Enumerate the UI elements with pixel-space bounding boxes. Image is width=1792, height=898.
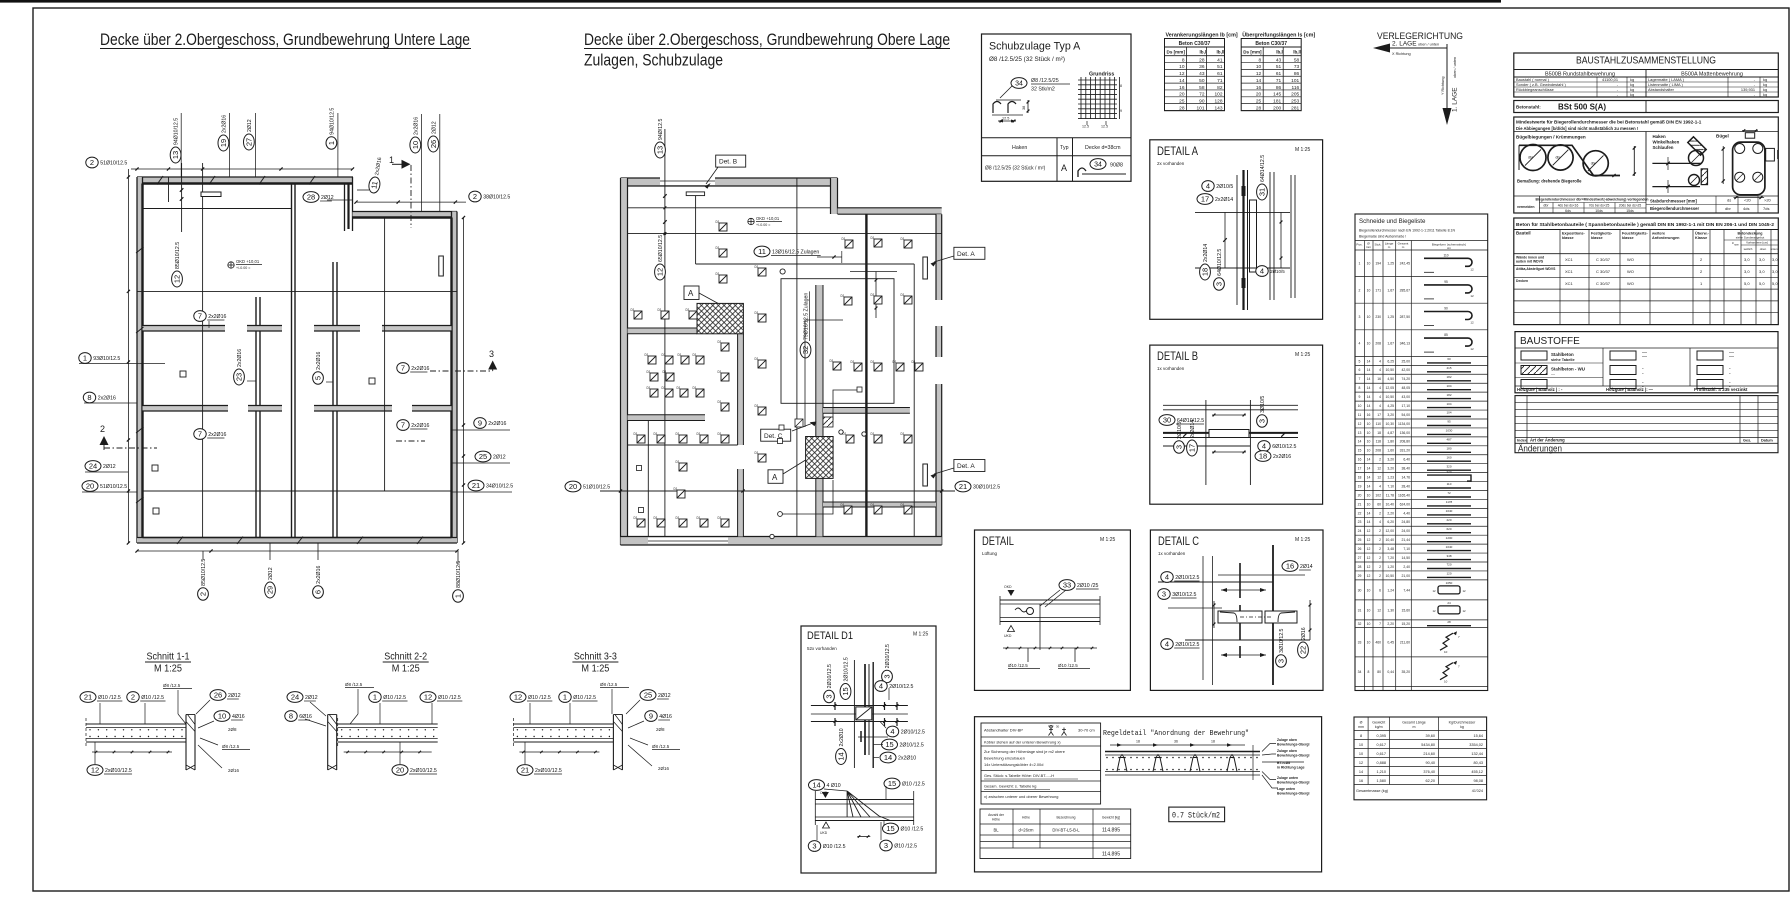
center plan heavy black interior wall bbox=[865, 214, 867, 536]
svg-text:kg: kg bbox=[1460, 725, 1464, 729]
svg-text:klasse: klasse bbox=[1591, 236, 1603, 240]
svg-text:15,20: 15,20 bbox=[1402, 622, 1411, 626]
zulagen inner vertical dim bbox=[875, 272, 877, 319]
svg-text:1178: 1178 bbox=[1446, 500, 1453, 504]
svg-text:1,20: 1,20 bbox=[1387, 565, 1394, 569]
svg-text:Gesam. Gewicht: s. Tabelle k: Gesam. Gewicht: s. Tabelle kg bbox=[984, 784, 1036, 789]
biegerollen circles bbox=[1520, 145, 1546, 171]
svg-text:21,44: 21,44 bbox=[1402, 538, 1411, 542]
svg-text:13: 13 bbox=[656, 146, 665, 154]
svg-text:1,580: 1,580 bbox=[1376, 779, 1386, 783]
svg-text:DETAIL C: DETAIL C bbox=[1158, 534, 1199, 548]
svg-text:2x2Ø16: 2x2Ø16 bbox=[221, 115, 227, 133]
Schneide und Biegeliste table bbox=[1355, 214, 1488, 691]
svg-text:Zulage oben: Zulage oben bbox=[1277, 738, 1297, 742]
verlegerichtung 1.lage arrow bbox=[1446, 44, 1448, 108]
svg-text:cm: cm bbox=[1447, 246, 1452, 250]
svg-text:Verankerungslängen lb [cm]: Verankerungslängen lb [cm] bbox=[1166, 33, 1238, 39]
pos label 11 Zulagen bbox=[754, 246, 821, 257]
svg-text:25: 25 bbox=[644, 691, 652, 700]
svg-text:DETAIL B: DETAIL B bbox=[1157, 349, 1198, 363]
svg-text:9: 9 bbox=[1359, 395, 1361, 399]
svg-text:Stabdurchmesser [mm]: Stabdurchmesser [mm] bbox=[1650, 199, 1697, 204]
anchor table Übergreifungsl bbox=[1241, 32, 1315, 112]
svg-text:31: 31 bbox=[1358, 608, 1362, 612]
svg-text:13: 13 bbox=[171, 151, 180, 159]
center plan interior gray walls bbox=[816, 285, 823, 537]
svg-text:2x2Ø14: 2x2Ø14 bbox=[1203, 244, 1209, 262]
svg-text:Zur Sicherung der Höhenlage si: Zur Sicherung der Höhenlage sind je m2 o… bbox=[984, 749, 1065, 754]
tiny squares center plan bbox=[637, 466, 642, 471]
svg-text:104: 104 bbox=[1446, 411, 1451, 415]
svg-text:4: 4 bbox=[1262, 442, 1266, 451]
slab band 1-1 bbox=[86, 723, 186, 725]
svg-text:BL: BL bbox=[993, 828, 999, 833]
svg-text:Änderungen: Änderungen bbox=[1518, 443, 1562, 454]
svg-text:54,00: 54,00 bbox=[1402, 413, 1411, 417]
detail D1 upper pills bbox=[824, 664, 835, 703]
svg-text:4: 4 bbox=[1379, 404, 1381, 408]
svg-text:weitere: weitere bbox=[1651, 232, 1665, 236]
svg-text:4: 4 bbox=[890, 727, 894, 736]
svg-text:128: 128 bbox=[1214, 98, 1222, 104]
svg-text:22: 22 bbox=[1299, 646, 1308, 654]
svg-text:2x vorhanden: 2x vorhanden bbox=[1157, 161, 1185, 166]
svg-text:7ds bei ds<25: 7ds bei ds<25 bbox=[1589, 204, 1610, 208]
section 3 dash segment lower bbox=[396, 440, 425, 442]
svg-text:Pos.: Pos. bbox=[1356, 243, 1362, 247]
svg-text:26: 26 bbox=[1358, 547, 1362, 551]
svg-text:6: 6 bbox=[314, 590, 323, 594]
svg-text:208: 208 bbox=[1375, 449, 1381, 453]
svg-text:4: 4 bbox=[879, 682, 883, 691]
svg-text:12: 12 bbox=[1179, 71, 1185, 77]
svg-text:10,40: 10,40 bbox=[1386, 502, 1395, 506]
svg-text:10: 10 bbox=[411, 141, 420, 149]
svg-text:Index: Index bbox=[1517, 439, 1528, 443]
svg-text:3,0: 3,0 bbox=[1759, 269, 1765, 274]
svg-text:10: 10 bbox=[1444, 650, 1448, 654]
detail C pills bbox=[1282, 561, 1313, 572]
svg-text:7ds: 7ds bbox=[1763, 206, 1769, 211]
svg-text:Schnitt 2-2: Schnitt 2-2 bbox=[384, 651, 427, 663]
svg-text:Art der Änderung: Art der Änderung bbox=[1530, 438, 1565, 443]
section wall 3-3 bbox=[612, 715, 614, 771]
svg-text:A: A bbox=[1061, 163, 1067, 173]
svg-text:3,20: 3,20 bbox=[1387, 413, 1394, 417]
svg-text:143: 143 bbox=[1214, 105, 1222, 111]
pos label 7 interior a bbox=[194, 311, 227, 322]
svg-text:Ø10 /12.5: Ø10 /12.5 bbox=[901, 827, 924, 833]
svg-text:Ø8 /12.5/25: Ø8 /12.5/25 bbox=[1031, 78, 1059, 84]
svg-text:Ø8 /12.5/25 (32 Stück / m²): Ø8 /12.5/25 (32 Stück / m²) bbox=[989, 56, 1065, 63]
svg-text:4: 4 bbox=[1379, 520, 1381, 524]
svg-text:32: 32 bbox=[801, 346, 810, 354]
elevation mark center plan bbox=[748, 218, 754, 224]
svg-text:7: 7 bbox=[198, 430, 202, 439]
svg-text:5,0: 5,0 bbox=[1772, 281, 1778, 286]
slab band 2-2 bbox=[338, 723, 438, 725]
svg-text:7,44: 7,44 bbox=[1403, 588, 1410, 592]
center plan group bbox=[565, 119, 1000, 545]
svg-text:331,20: 331,20 bbox=[1400, 449, 1410, 453]
small circle marks center plan bbox=[770, 534, 774, 538]
svg-text:10,50: 10,50 bbox=[1386, 574, 1395, 578]
section wall 2-2 bbox=[327, 715, 329, 771]
svg-text:72: 72 bbox=[1199, 92, 1205, 98]
leader polyline c bbox=[805, 320, 843, 427]
svg-text:Bewehrungs-Obergl: Bewehrungs-Obergl bbox=[1277, 781, 1309, 785]
svg-text:2: 2 bbox=[1359, 288, 1361, 292]
svg-text:3,0: 3,0 bbox=[1772, 269, 1778, 274]
left plan wall joint ticks bbox=[157, 176, 163, 185]
svg-text:19: 19 bbox=[219, 139, 228, 147]
svg-text:41100,01: 41100,01 bbox=[1602, 77, 1618, 82]
left plan thin interior lines bbox=[143, 208, 292, 210]
svg-text:18: 18 bbox=[1259, 452, 1267, 461]
svg-text:6,25: 6,25 bbox=[1387, 359, 1394, 363]
svg-text:siehe Tabelle: siehe Tabelle bbox=[1551, 358, 1575, 362]
svg-text:12: 12 bbox=[1470, 321, 1474, 325]
svg-text:14: 14 bbox=[1179, 78, 1185, 84]
svg-text:7: 7 bbox=[1379, 622, 1381, 626]
svg-text:38: 38 bbox=[1022, 106, 1026, 110]
Aenderungen table bbox=[1515, 396, 1778, 455]
svg-text:8: 8 bbox=[1360, 734, 1362, 738]
Det A wall niche lower bbox=[923, 464, 928, 486]
detail A pills bbox=[1202, 181, 1234, 192]
svg-text:13: 13 bbox=[1358, 431, 1362, 435]
svg-text:BSt 500 S(A): BSt 500 S(A) bbox=[1558, 103, 1606, 112]
svg-text:2: 2 bbox=[1379, 511, 1381, 515]
svg-text:145: 145 bbox=[1273, 92, 1281, 98]
svg-text:3: 3 bbox=[825, 694, 834, 698]
svg-text:A: A bbox=[688, 289, 694, 298]
svg-text:1: 1 bbox=[563, 693, 567, 702]
svg-text:285,67: 285,67 bbox=[1400, 288, 1410, 292]
svg-text:14: 14 bbox=[1367, 520, 1371, 524]
svg-text:<20: <20 bbox=[1744, 198, 1752, 203]
svg-text:klasse: klasse bbox=[1562, 236, 1574, 240]
svg-text:2: 2 bbox=[131, 693, 135, 702]
svg-text:Ø10 /12.5: Ø10 /12.5 bbox=[528, 695, 551, 701]
svg-text:1040: 1040 bbox=[1446, 545, 1453, 549]
pos label 5 rotated bbox=[313, 352, 324, 385]
svg-text:25: 25 bbox=[1256, 98, 1262, 104]
svg-text:18: 18 bbox=[1358, 475, 1362, 479]
svg-text:3: 3 bbox=[489, 349, 494, 359]
svg-text:Bügelbiegungen / Krümmungen: Bügelbiegungen / Krümmungen bbox=[1516, 135, 1586, 140]
svg-text:Beton C30/37: Beton C30/37 bbox=[1255, 41, 1287, 47]
svg-text:10: 10 bbox=[1359, 743, 1363, 747]
svg-text:12: 12 bbox=[1358, 422, 1362, 426]
detail A verticals bbox=[1236, 175, 1238, 305]
svg-text:BT-n-Ø8: BT-n-Ø8 bbox=[1277, 761, 1290, 765]
pos label 21 center bbox=[955, 481, 1000, 492]
svg-text:Det. B: Det. B bbox=[719, 159, 737, 166]
svg-text:14: 14 bbox=[1367, 368, 1371, 372]
detail C dims bbox=[1213, 601, 1215, 628]
svg-text:Kg/Durchmesser: Kg/Durchmesser bbox=[1449, 721, 1477, 725]
svg-text:71: 71 bbox=[1217, 78, 1223, 84]
svg-text:XC1: XC1 bbox=[1565, 281, 1574, 286]
svg-text:Ø: Ø bbox=[1360, 721, 1363, 725]
svg-text:OKD: OKD bbox=[1004, 585, 1012, 589]
svg-text:10: 10 bbox=[1367, 262, 1371, 266]
svg-text:104: 104 bbox=[1446, 402, 1451, 406]
svg-text:28: 28 bbox=[1199, 57, 1205, 63]
svg-text:41'024: 41'024 bbox=[1472, 789, 1483, 793]
svg-text:20: 20 bbox=[86, 482, 94, 491]
svg-text:BAUSTOFFE: BAUSTOFFE bbox=[1520, 336, 1580, 347]
svg-text:Feuchtigkeits-: Feuchtigkeits- bbox=[1622, 232, 1648, 236]
Baustahl box3 Biegerollen bbox=[1514, 117, 1779, 213]
svg-text:Ø10 /12.5: Ø10 /12.5 bbox=[98, 695, 121, 701]
pos label 20 center bbox=[565, 481, 610, 492]
svg-text:101: 101 bbox=[1291, 78, 1299, 84]
svg-text:1: 1 bbox=[83, 354, 87, 363]
svg-text:12.5: 12.5 bbox=[1002, 117, 1009, 121]
svg-text:24,00: 24,00 bbox=[1402, 529, 1411, 533]
svg-text:oben / unten: oben / unten bbox=[1453, 57, 1457, 78]
svg-text:1,25: 1,25 bbox=[1387, 315, 1394, 319]
svg-text:3Ø10/12.5: 3Ø10/12.5 bbox=[1172, 592, 1196, 598]
svg-text:16: 16 bbox=[1377, 377, 1381, 381]
svg-text:Abstandhalter DIV-BP: Abstandhalter DIV-BP bbox=[984, 728, 1023, 733]
dim line below 1-1 bbox=[92, 751, 172, 753]
svg-text:208,80: 208,80 bbox=[1400, 440, 1410, 444]
detail D1 lower section bbox=[815, 799, 913, 801]
svg-text:8: 8 bbox=[1368, 670, 1370, 674]
svg-text:5: 5 bbox=[314, 376, 323, 380]
svg-text:43: 43 bbox=[1276, 57, 1282, 63]
svg-text:2Ø8: 2Ø8 bbox=[656, 727, 665, 732]
svg-text:Lage unten: Lage unten bbox=[1277, 787, 1295, 791]
svg-text:x) zwischen unterer und oberer: x) zwischen unterer und oberer Bewehrung bbox=[984, 794, 1058, 799]
svg-text:80,43: 80,43 bbox=[1473, 761, 1483, 765]
svg-text:34: 34 bbox=[1015, 81, 1023, 88]
svg-text:2Ø16: 2Ø16 bbox=[658, 766, 670, 771]
pos label 21 right bbox=[468, 480, 513, 491]
svg-text:17: 17 bbox=[1201, 195, 1209, 204]
svg-text:12.5: 12.5 bbox=[1082, 125, 1089, 129]
svg-text:6,40: 6,40 bbox=[1403, 458, 1410, 462]
svg-text:WO: WO bbox=[1627, 257, 1634, 262]
svg-text:30: 30 bbox=[1358, 588, 1362, 592]
svg-text:11: 11 bbox=[758, 247, 766, 256]
svg-text:4,50: 4,50 bbox=[1387, 377, 1394, 381]
svg-text:136,00: 136,00 bbox=[1400, 431, 1410, 435]
svg-text:2Ø10/12.5: 2Ø10/12.5 bbox=[901, 730, 925, 736]
svg-text:16: 16 bbox=[1286, 562, 1294, 571]
svg-text:1,24: 1,24 bbox=[1387, 588, 1394, 592]
svg-text:Haken: Haken bbox=[1653, 134, 1666, 139]
svg-text:220: 220 bbox=[1446, 518, 1451, 522]
svg-text:5,0: 5,0 bbox=[1759, 281, 1765, 286]
svg-text:35,20: 35,20 bbox=[1402, 670, 1411, 674]
dim line below 3-3 bbox=[519, 751, 599, 753]
svg-text:242,45: 242,45 bbox=[1400, 262, 1410, 266]
svg-text:38Ø10/12.5: 38Ø10/12.5 bbox=[483, 195, 510, 201]
svg-text:160: 160 bbox=[1446, 455, 1451, 459]
svg-text:720: 720 bbox=[1446, 563, 1451, 567]
svg-text:2: 2 bbox=[1379, 565, 1381, 569]
svg-text:8: 8 bbox=[87, 393, 91, 402]
svg-text:Beton C30/37: Beton C30/37 bbox=[1179, 41, 1211, 47]
svg-text:Det. A: Det. A bbox=[957, 463, 975, 470]
svg-text:4,25: 4,25 bbox=[1387, 404, 1394, 408]
svg-text:kg: kg bbox=[1763, 92, 1767, 97]
svg-text:24: 24 bbox=[89, 462, 97, 471]
svg-text:seitlich: seitlich bbox=[1744, 247, 1753, 251]
svg-text:1: 1 bbox=[327, 141, 336, 145]
svg-text:15ds: 15ds bbox=[1626, 209, 1634, 213]
svg-text:4: 4 bbox=[1165, 640, 1169, 649]
pos label 27 rotated bbox=[244, 119, 255, 150]
svg-text:28: 28 bbox=[1358, 565, 1362, 569]
svg-text:85Ø10/12.5: 85Ø10/12.5 bbox=[201, 559, 207, 586]
svg-text:1. LAGE: 1. LAGE bbox=[1452, 87, 1459, 112]
svg-text:XC1: XC1 bbox=[1565, 257, 1574, 262]
svg-text:2Ø14: 2Ø14 bbox=[1300, 564, 1313, 570]
svg-text:376,40: 376,40 bbox=[1423, 770, 1435, 774]
svg-text:1: 1 bbox=[373, 693, 377, 702]
svg-text:2Ø12: 2Ø12 bbox=[431, 121, 437, 134]
svg-text:12,00: 12,00 bbox=[1386, 529, 1395, 533]
svg-text:Expositions-: Expositions- bbox=[1562, 232, 1586, 236]
svg-text:10: 10 bbox=[218, 712, 226, 721]
svg-text:lb,l: lb,l bbox=[1276, 50, 1283, 55]
svg-text:25: 25 bbox=[479, 452, 487, 461]
Det B drop line bbox=[695, 196, 697, 264]
schnitt 2-2 labels bbox=[285, 682, 463, 775]
svg-text:2: 2 bbox=[90, 158, 94, 167]
svg-text:20: 20 bbox=[396, 766, 404, 775]
svg-text:X Richtung: X Richtung bbox=[1392, 52, 1411, 56]
DETAIL Lueftung box bbox=[975, 530, 1131, 690]
svg-text:kg: kg bbox=[1630, 92, 1634, 97]
svg-text:51: 51 bbox=[1217, 64, 1223, 70]
svg-text:3,0: 3,0 bbox=[1744, 269, 1750, 274]
svg-text:43,00: 43,00 bbox=[1402, 395, 1411, 399]
svg-text:4: 4 bbox=[1379, 395, 1381, 399]
left plan outer walls bbox=[137, 177, 353, 184]
svg-text:Ø10 /12.5: Ø10 /12.5 bbox=[894, 844, 917, 850]
svg-text:2: 2 bbox=[1379, 538, 1381, 542]
svg-text:10: 10 bbox=[1367, 315, 1371, 319]
svg-text:mm: mm bbox=[1366, 245, 1372, 249]
svg-text:90: 90 bbox=[1444, 307, 1448, 311]
svg-text:287,50: 287,50 bbox=[1400, 315, 1410, 319]
svg-text:klasse: klasse bbox=[1622, 236, 1634, 240]
svg-text:23: 23 bbox=[235, 373, 244, 381]
detail B horizontals bbox=[1163, 404, 1298, 406]
schubzulage hook diagram bbox=[1011, 78, 1027, 89]
svg-text:Rückbiegeanschlüsse: Rückbiegeanschlüsse bbox=[1516, 87, 1554, 92]
svg-text:20: 20 bbox=[569, 482, 577, 491]
svg-text:3Ø10/5: 3Ø10/5 bbox=[1260, 396, 1266, 413]
svg-text:Decke über 2.Obergeschoss, Gru: Decke über 2.Obergeschoss, Grundbewehrun… bbox=[100, 31, 470, 49]
svg-text:2x2Ø16: 2x2Ø16 bbox=[488, 421, 506, 427]
svg-text:12: 12 bbox=[1377, 475, 1381, 479]
svg-text:2Ø12: 2Ø12 bbox=[268, 567, 274, 580]
center plan wall openings white bbox=[660, 177, 715, 185]
svg-text:28: 28 bbox=[307, 193, 315, 202]
svg-text:Stahlbeton - WU: Stahlbeton - WU bbox=[1551, 367, 1585, 372]
okd ukd marks bbox=[1008, 590, 1015, 596]
left plan inner heavy edges bbox=[143, 182, 353, 184]
small squares near det C bbox=[779, 425, 784, 430]
svg-text:14: 14 bbox=[1367, 511, 1371, 515]
DETAIL A box bbox=[1150, 140, 1323, 319]
0.7 Stueck box bbox=[1169, 807, 1225, 822]
svg-text:Biegerollendurchmesser dbr=Min: Biegerollendurchmesser dbr=Mindestwert(-… bbox=[1536, 198, 1649, 202]
regeldetail support chairs bbox=[1117, 758, 1127, 772]
svg-text:Det. A: Det. A bbox=[957, 251, 975, 258]
svg-text:2Ø12: 2Ø12 bbox=[247, 119, 253, 132]
svg-text:64Ø10/12.5: 64Ø10/12.5 bbox=[1217, 249, 1223, 276]
svg-text:60: 60 bbox=[1447, 357, 1451, 361]
Det B lintel bar bbox=[686, 192, 704, 196]
svg-text:17: 17 bbox=[1188, 444, 1197, 452]
svg-text:4 Ø10: 4 Ø10 bbox=[827, 783, 841, 789]
left plan bottom rotated labels bbox=[198, 559, 209, 601]
svg-text:+/-0.00 =: +/-0.00 = bbox=[236, 266, 250, 270]
svg-text:4: 4 bbox=[1379, 484, 1381, 488]
svg-text:1,80: 1,80 bbox=[1387, 440, 1394, 444]
svg-text:m: m bbox=[1388, 245, 1391, 249]
left plan lintel rect top-left bbox=[201, 192, 221, 197]
svg-text:182: 182 bbox=[1446, 393, 1451, 397]
svg-text:2Ø12: 2Ø12 bbox=[228, 693, 241, 699]
svg-text:180: 180 bbox=[1446, 446, 1451, 450]
svg-text:M 1:25: M 1:25 bbox=[581, 664, 609, 675]
svg-text:4Ø16: 4Ø16 bbox=[232, 714, 245, 720]
svg-text:DETAIL D1: DETAIL D1 bbox=[807, 630, 853, 642]
svg-text:Regeldetail "Anordnung der Be: Regeldetail "Anordnung der Bewehrung" bbox=[1103, 730, 1249, 738]
svg-text:Gewicht [kg]: Gewicht [kg] bbox=[1102, 816, 1120, 820]
svg-text:20: 20 bbox=[1358, 493, 1362, 497]
pos label 28 bbox=[303, 192, 334, 203]
svg-text:28,40: 28,40 bbox=[1402, 484, 1411, 488]
svg-text:30Ø10/12.5: 30Ø10/12.5 bbox=[973, 485, 1000, 491]
svg-text:171: 171 bbox=[1375, 288, 1381, 292]
A label box 1 bbox=[684, 286, 699, 300]
svg-text:18: 18 bbox=[1201, 268, 1210, 276]
svg-text:12,05: 12,05 bbox=[1386, 386, 1395, 390]
dim line below 2-2 bbox=[344, 751, 432, 753]
svg-text:Ds [mm]: Ds [mm] bbox=[1167, 50, 1186, 55]
svg-text:2Ø16: 2Ø16 bbox=[228, 768, 240, 773]
svg-text:Attika,Abstellgurt WDVS: Attika,Abstellgurt WDVS bbox=[1516, 267, 1556, 271]
svg-text:dbr: dbr bbox=[1725, 206, 1731, 211]
BAUSTOFFE box bbox=[1515, 332, 1778, 393]
svg-text:17,10: 17,10 bbox=[1402, 404, 1411, 408]
Det A label box upper bbox=[954, 247, 985, 259]
zulagen loop rectangle bbox=[781, 279, 894, 404]
svg-text:Ø10 /12.5: Ø10 /12.5 bbox=[573, 695, 596, 701]
svg-text:5434,80: 5434,80 bbox=[1421, 743, 1435, 747]
svg-text:A: A bbox=[772, 473, 778, 482]
svg-text:0,395: 0,395 bbox=[1376, 734, 1386, 738]
svg-text:31: 31 bbox=[1258, 188, 1267, 196]
svg-text:Typ: Typ bbox=[1060, 145, 1069, 151]
svg-text:253: 253 bbox=[1291, 98, 1299, 104]
svg-text:12: 12 bbox=[656, 268, 665, 276]
svg-text:21: 21 bbox=[1358, 502, 1362, 506]
svg-text:4: 4 bbox=[1379, 386, 1381, 390]
left plan interior horizontal walls with gray fill bbox=[143, 326, 283, 332]
